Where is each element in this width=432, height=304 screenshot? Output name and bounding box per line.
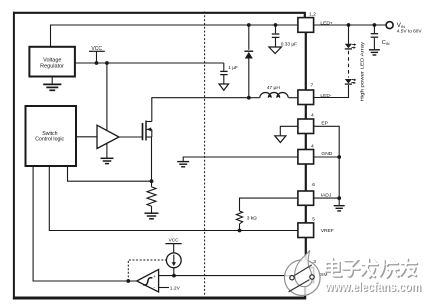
char shao: [380, 260, 384, 275]
svg-text:Voltage: Voltage: [43, 57, 61, 63]
ground: 0.33uF open triangle: [269, 47, 282, 54]
op-amp U1 gate driver buffer: [97, 125, 119, 148]
watermark logo disc: [285, 250, 321, 295]
wire: 1.2V reference to comparator minus input: [159, 287, 169, 289]
wire: sense node horizontal from control logic: [68, 166, 152, 181]
wire: bus LED+ to LED-: [305, 32, 307, 90]
node: GND tie junction: [337, 155, 341, 159]
node: diode bottom junction: [247, 96, 251, 100]
capacitor C2 1uF: [220, 71, 227, 74]
pin EP: [298, 119, 314, 134]
capacitor C3 CIN: [371, 34, 379, 38]
wire: VCC to gate driver supply: [106, 63, 108, 131]
svg-text:6: 6: [312, 182, 315, 188]
wire: inductor to LED- pin: [289, 97, 298, 99]
char fa: [362, 263, 377, 265]
wire: regulator top to LED+ node: [51, 25, 298, 47]
pin DIM: [298, 268, 314, 283]
wire: 0.33uF to triangle ground: [275, 38, 277, 47]
svg-text:5: 5: [312, 217, 315, 223]
wire: dashed LED array continuation: [348, 51, 350, 78]
pin GND: [298, 150, 314, 165]
block: switch control logic: [26, 106, 77, 166]
svg-text:High power LED Array: High power LED Array: [360, 41, 366, 101]
svg-text:www.elecfans.com: www.elecfans.com: [324, 280, 421, 294]
transistor Q1 NMOS: [143, 121, 152, 141]
wire: CIN to ground lead: [373, 38, 375, 49]
watermark url: [324, 280, 422, 295]
ground: IADJ tie: [334, 206, 345, 211]
diode D1 catch diode: [244, 51, 253, 58]
wire: bus LED- to EP: [305, 105, 307, 120]
wire: LED string anode lead: [348, 25, 350, 44]
ground: 1uF open triangle: [219, 84, 229, 90]
ground: EP open triangle: [275, 136, 286, 143]
svg-text:47 µH: 47 µH: [267, 85, 280, 91]
switch contact circle right: [310, 275, 314, 279]
wire: CIN lead: [373, 25, 375, 33]
svg-text:VREF: VREF: [321, 228, 334, 234]
node: source sense junction: [150, 179, 154, 183]
switch contact circle left: [290, 276, 294, 280]
svg-text:Regulator: Regulator: [40, 64, 64, 70]
LED D2: [345, 43, 357, 49]
svg-text:1,2: 1,2: [309, 11, 316, 17]
wire: LED string cathode back to LED-: [314, 85, 349, 98]
char fa shadow: [363, 264, 378, 266]
svg-text:3 kΩ: 3 kΩ: [247, 215, 257, 221]
watermark chinese text: [326, 258, 418, 278]
wire: bus from DIM pin down to bottom border: [304, 283, 306, 299]
resistor R1 sense: [147, 187, 156, 206]
pin IADJ: [298, 191, 314, 205]
IC boundary dashed line: [204, 12, 206, 298]
svg-text:GND: GND: [321, 151, 332, 157]
pin LED+: [298, 18, 314, 33]
wire: dashed control line to current source: [128, 260, 166, 281]
ground: sense resistor: [145, 213, 159, 219]
wire: bus VREF to DIM: [305, 238, 307, 268]
wire: current source stem lower: [173, 268, 175, 276]
wire: bus EP to GND: [305, 134, 307, 150]
char dian shadow: [333, 259, 342, 277]
capacitor C1 0.33uF: [272, 34, 280, 37]
wire: top border bus into LED+ pin: [13, 13, 305, 18]
wire: MOSFET source to sense resistor: [151, 137, 153, 187]
char dian: [332, 258, 341, 276]
wire: gate driver to ground lead: [106, 144, 108, 159]
ground: internal GND: [177, 162, 189, 167]
wire: control logic to VREF pin: [49, 166, 298, 231]
svg-text:EP: EP: [321, 121, 328, 127]
wire: LED+ pin to VIN terminal: [314, 24, 387, 26]
wire: bus GND to IADJ: [305, 164, 307, 191]
LED D3: [345, 79, 357, 85]
char zi: [345, 260, 357, 266]
wire: current source stem upper to VCC: [173, 244, 175, 253]
svg-text:VCC: VCC: [169, 238, 180, 243]
current source I1: [166, 253, 181, 268]
op-amp U2 hysteretic comparator: [137, 269, 159, 292]
node: current source junction: [172, 274, 176, 278]
wire: sense resistor to ground lead: [151, 206, 153, 213]
wire: IADJ pin right tie: [314, 197, 340, 199]
wire: comparator plus input / current source to DIM pin: [159, 275, 298, 277]
node: LED anode junction: [347, 23, 351, 27]
wire: 0.33uF cap lead: [275, 25, 277, 33]
svg-text:VCC: VCC: [91, 46, 102, 52]
node: 3k VREF junction: [238, 229, 242, 233]
wire: bus IADJ to VREF: [305, 205, 307, 223]
block: voltage regulator: [29, 47, 75, 77]
svg-text:7: 7: [311, 83, 314, 89]
switch slash upper: [294, 265, 312, 276]
pin LED-: [298, 90, 314, 105]
wire: regulator ground lead: [51, 77, 53, 85]
svg-text:LED-: LED-: [320, 93, 332, 99]
node: CIN junction: [373, 23, 377, 27]
wire: bottom border bus: [13, 297, 306, 300]
ground: gate driver: [101, 158, 114, 163]
wire: switch node diode to inductor: [249, 97, 260, 99]
svg-text:Control logic: Control logic: [35, 136, 64, 142]
wire: EP pin left to exposed pad ground: [280, 126, 298, 136]
svg-text:+: +: [153, 274, 156, 279]
node: comparator output junction: [126, 279, 130, 283]
ground: CIN: [369, 50, 380, 55]
node: VCC junction 2: [105, 61, 109, 65]
wire: EP pin right tie: [314, 126, 340, 205]
wire: IADJ pin to 3k resistor: [240, 198, 298, 211]
char you shadow: [402, 263, 417, 265]
svg-text:1.2V: 1.2V: [170, 285, 181, 291]
VCC supply symbol top: [89, 50, 105, 52]
svg-text:-: -: [153, 285, 155, 291]
svg-text:LED+: LED+: [320, 20, 333, 26]
wire: GND pin right tie: [314, 156, 340, 158]
resistor R2 3k: [236, 211, 242, 224]
pin VREF: [298, 223, 314, 238]
svg-text:4.5V to 60V: 4.5V to 60V: [397, 29, 422, 34]
wire: MOSFET drain to switch node: [152, 98, 249, 122]
char shao shadow: [381, 261, 385, 276]
wire: left border: [13, 12, 15, 300]
wire: VCC rail from regulator to 1uF cap: [75, 62, 224, 64]
node: 0.33uF junction: [274, 23, 278, 27]
wire: control logic to comparator output node: [33, 166, 137, 281]
svg-text:0.33 µF: 0.33 µF: [281, 42, 297, 48]
wire: GND pin to internal ground: [183, 157, 298, 161]
inductor L1 47uH: [260, 93, 288, 98]
wire: 1uF to triangle ground: [223, 75, 225, 84]
node: IADJ tie junction: [337, 196, 341, 200]
terminal: VIN: [386, 22, 393, 29]
svg-text:4: 4: [311, 112, 314, 118]
char you: [401, 262, 416, 264]
wire: control logic to gate driver input: [76, 136, 97, 138]
wire: 1uF cap lead: [223, 63, 225, 71]
svg-text:4: 4: [311, 143, 314, 149]
svg-text:IADJ: IADJ: [321, 192, 332, 198]
VCC supply symbol comparator: [165, 243, 181, 245]
ground: regulator: [43, 84, 61, 90]
svg-text:1 µF: 1 µF: [228, 65, 238, 71]
wire: catch diode leads: [248, 25, 250, 50]
char zi shadow: [346, 261, 358, 267]
node: VCC junction 1: [95, 61, 99, 65]
wire: gate driver output to MOSFET gate: [119, 136, 142, 138]
node: diode top junction: [247, 23, 251, 27]
watermark flame: [295, 250, 313, 286]
switch slash lower: [289, 280, 310, 292]
wire: 3k resistor to VREF wire: [239, 224, 241, 231]
